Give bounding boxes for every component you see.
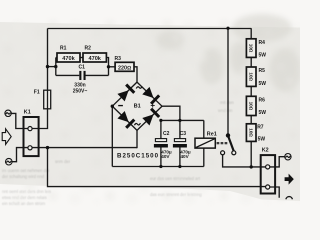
svg-text:5W: 5W	[258, 137, 266, 143]
svg-text:K2: K2	[262, 147, 269, 153]
svg-text:5W: 5W	[259, 53, 267, 59]
svg-text:R4: R4	[259, 40, 266, 46]
svg-text:B1: B1	[134, 104, 141, 110]
svg-text:5W: 5W	[259, 110, 267, 116]
svg-text:10Ω: 10Ω	[249, 102, 254, 111]
svg-text:10Ω: 10Ω	[249, 44, 254, 53]
svg-text:470k: 470k	[62, 56, 75, 62]
svg-text:C3: C3	[180, 131, 187, 137]
svg-text:330n: 330n	[74, 82, 85, 88]
svg-text:R1: R1	[60, 46, 67, 52]
svg-text:220Ω: 220Ω	[118, 65, 131, 71]
svg-text:R5: R5	[259, 68, 266, 74]
svg-text:10Ω: 10Ω	[249, 128, 254, 137]
svg-text:+: +	[150, 101, 155, 110]
svg-text:C1: C1	[79, 65, 86, 71]
svg-text:250V~: 250V~	[73, 89, 88, 95]
svg-text:40V: 40V	[181, 154, 190, 159]
svg-text:B250C1500: B250C1500	[117, 153, 159, 160]
svg-text:R2: R2	[85, 46, 92, 52]
svg-text:5W: 5W	[259, 81, 267, 87]
svg-text:R7: R7	[257, 125, 264, 131]
svg-text:K1: K1	[24, 110, 31, 116]
svg-text:C2: C2	[163, 131, 170, 137]
svg-text:F1: F1	[34, 90, 40, 96]
svg-text:470k: 470k	[88, 56, 101, 62]
svg-text:10Ω: 10Ω	[249, 72, 254, 81]
svg-text:40V: 40V	[161, 154, 170, 159]
svg-text:R3: R3	[115, 56, 122, 62]
svg-text:Re1: Re1	[207, 132, 217, 138]
svg-text:R6: R6	[259, 97, 266, 103]
